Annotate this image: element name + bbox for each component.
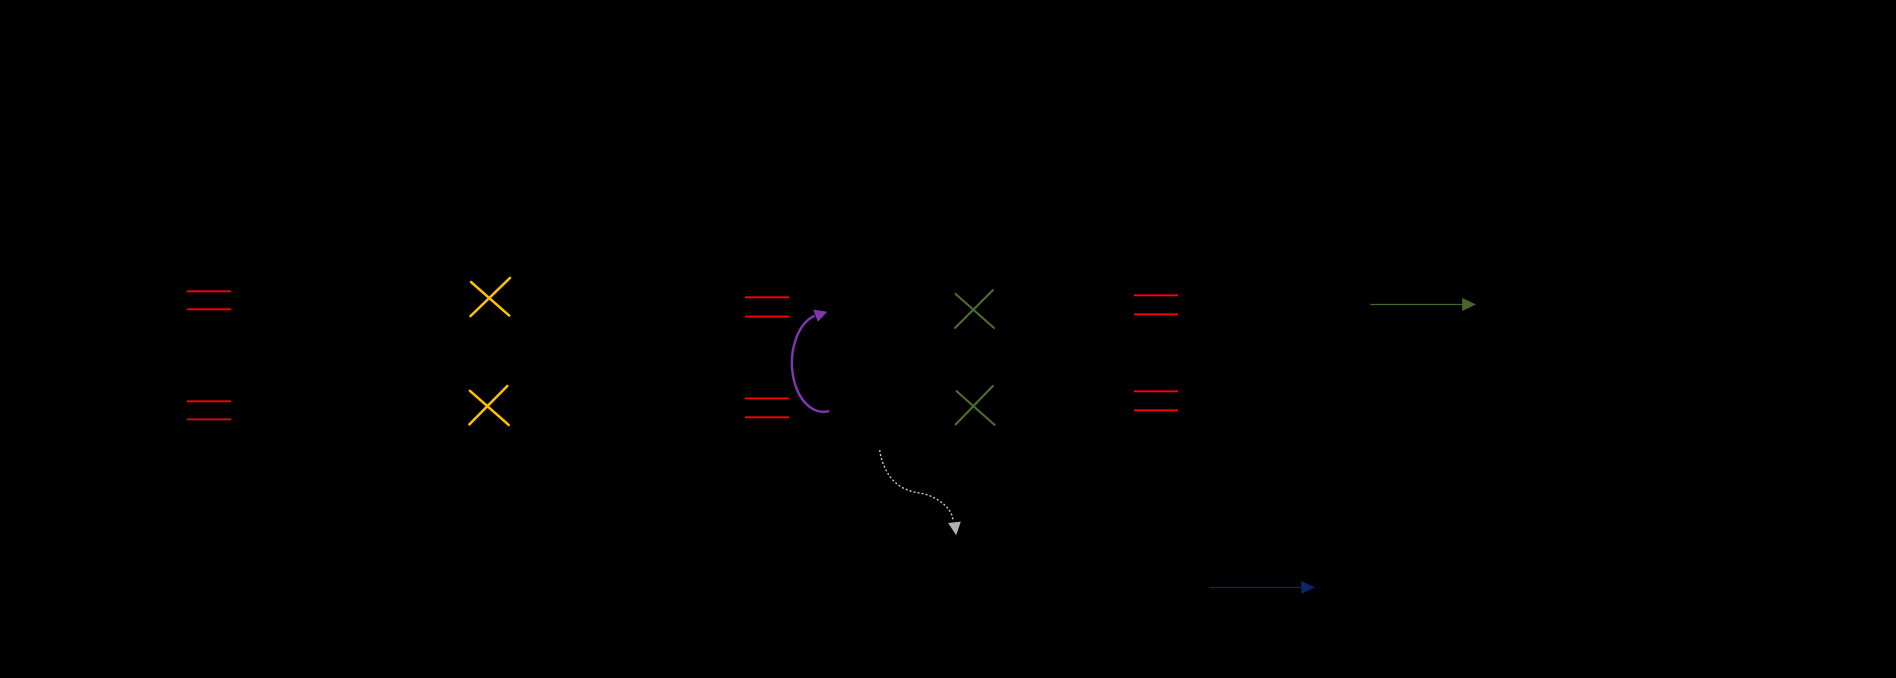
crossed-out X top (orange) xyxy=(471,278,511,316)
crossed-out X bottom (orange) xyxy=(469,386,508,425)
reaction arrow (green) xyxy=(1370,304,1462,306)
dashed arrow head (gray) xyxy=(948,522,961,536)
middle double-bond pair top (red) xyxy=(745,297,789,316)
middle double-bond pair bottom (red) xyxy=(745,398,789,417)
crossed-out X top (green) xyxy=(955,290,994,328)
curved arrow (purple) xyxy=(792,316,829,412)
dashed curved arrow (gray) xyxy=(880,450,953,520)
curved arrow head (purple) xyxy=(813,310,827,322)
right double-bond pair bottom (red) xyxy=(1134,391,1178,410)
reaction arrow (blue) xyxy=(1209,586,1301,588)
right double-bond pair top (red) xyxy=(1134,295,1178,314)
reaction arrow head (blue) xyxy=(1301,581,1315,594)
left double-bond pair bottom (red) xyxy=(187,401,231,419)
crossed-out X bottom (green) xyxy=(956,386,995,425)
left double-bond pair top (red) xyxy=(187,291,231,309)
reaction arrow head (green) xyxy=(1462,298,1476,311)
